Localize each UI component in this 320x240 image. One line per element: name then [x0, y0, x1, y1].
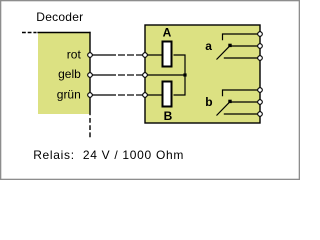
wire grün terminal to coil B: [145, 94, 162, 96]
svg-text:A: A: [163, 26, 172, 40]
dashed continuation of decoder right edge (below box): [89, 118, 91, 138]
contact b fixed bottom: [224, 113, 260, 115]
relay coil B: [163, 82, 172, 107]
contact b pivot: [228, 100, 231, 103]
wire gelb terminal to common junction: [145, 74, 185, 76]
svg-text:b: b: [205, 95, 212, 109]
contact a fixed bottom: [224, 57, 260, 59]
svg-text:a: a: [205, 39, 212, 53]
terminal gelb decoder: [88, 73, 93, 78]
svg-text:grün: grün: [57, 87, 81, 101]
contact a lever: [217, 46, 230, 59]
terminal relay rot: [143, 53, 148, 58]
relay box: [145, 25, 260, 123]
terminal a1: [258, 32, 263, 37]
decoder box (yellow, open left/bottom): [37, 32, 90, 115]
junction common: [183, 73, 186, 76]
contact a pivot: [228, 44, 231, 47]
contact a fixed top: [223, 34, 261, 40]
contact b fixed top: [223, 90, 261, 96]
wire coil B to common: [174, 75, 186, 95]
wire rot (decoder to relay): [92, 54, 143, 56]
terminal rot decoder: [88, 53, 93, 58]
terminal a2: [258, 44, 263, 49]
terminal relay gelb: [143, 73, 148, 78]
wire coil A to common: [174, 55, 186, 75]
terminal relay gruen: [143, 93, 148, 98]
terminal b3: [258, 112, 263, 117]
svg-text:gelb: gelb: [58, 67, 81, 81]
contact b lever: [217, 102, 230, 115]
relay coil A: [163, 42, 172, 67]
dashed continuation of decoder top edge: [22, 32, 37, 34]
page background: [0, 0, 300, 180]
terminal a3: [258, 56, 263, 61]
wire rot terminal to coil A: [145, 54, 162, 56]
svg-text:rot: rot: [67, 47, 82, 61]
wire gruen (decoder to relay): [92, 94, 143, 96]
svg-text:B: B: [164, 109, 173, 123]
svg-text:Decoder: Decoder: [36, 10, 83, 24]
terminal b1: [258, 88, 263, 93]
wire gelb (decoder to relay): [92, 74, 143, 76]
contact a common: [230, 45, 260, 47]
svg-text:Relais: 24 V / 1000 Ohm: Relais: 24 V / 1000 Ohm: [33, 148, 184, 162]
terminal gruen decoder: [88, 93, 93, 98]
contact b common: [230, 101, 260, 103]
terminal b2: [258, 100, 263, 105]
outer frame: [1, 1, 300, 180]
